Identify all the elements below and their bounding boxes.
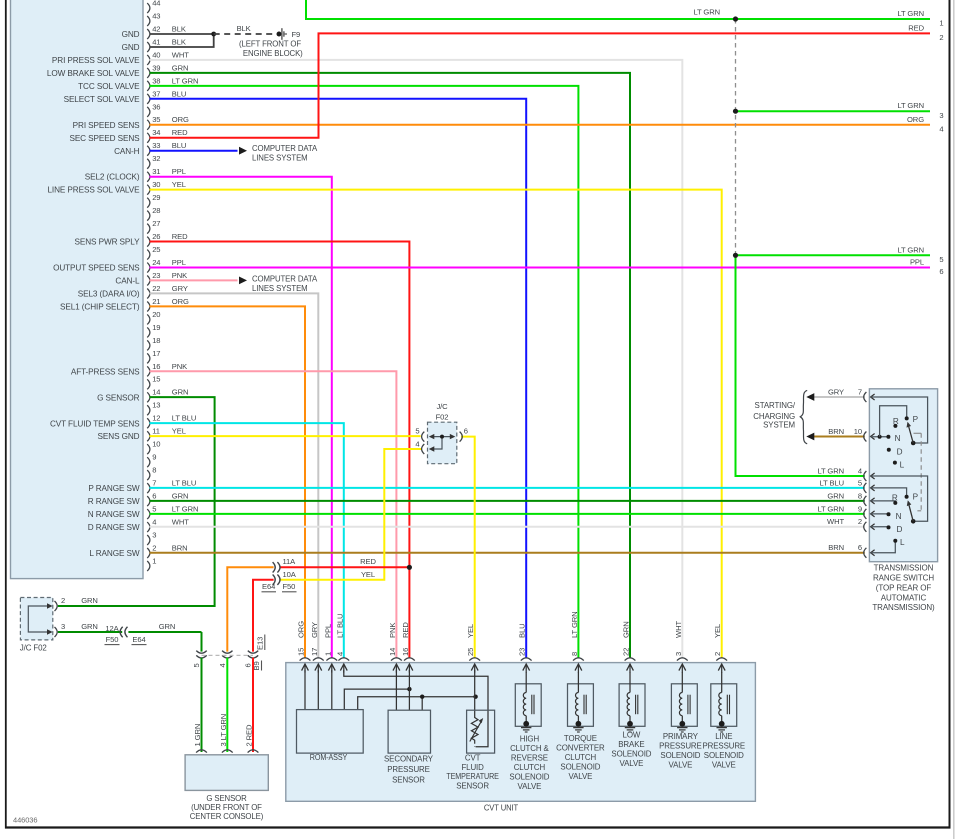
svg-text:BRAKE: BRAKE (618, 740, 644, 749)
svg-text:TRANSMISSION: TRANSMISSION (874, 564, 934, 573)
svg-text:P RANGE SW: P RANGE SW (88, 484, 140, 493)
page terminal 3 LT GRN (897, 101, 943, 120)
TCM pin 2 (BRN) (147, 543, 187, 558)
svg-text:3: 3 (674, 652, 683, 656)
svg-text:GRY: GRY (172, 284, 188, 293)
svg-text:22: 22 (152, 284, 160, 293)
svg-text:ORG: ORG (907, 115, 924, 124)
svg-text:1: 1 (939, 19, 943, 28)
svg-text:F50: F50 (106, 635, 119, 644)
svg-text:N RANGE SW: N RANGE SW (88, 510, 140, 519)
svg-text:LT GRN: LT GRN (897, 9, 924, 18)
TCM pin 14 (GRN) (147, 388, 188, 403)
upper switch contacts R P N D L (886, 416, 908, 464)
svg-text:YEL: YEL (172, 427, 186, 436)
svg-text:GRN: GRN (159, 622, 176, 631)
label GND (122, 43, 140, 52)
svg-text:5: 5 (858, 478, 862, 487)
transmission range switch box (869, 389, 937, 562)
label SELECT SOL VALVE (64, 95, 141, 104)
svg-text:4: 4 (939, 124, 943, 133)
svg-text:2: 2 (939, 33, 943, 42)
CVT unit pin 8 (LT GRN) (570, 611, 584, 672)
svg-text:WHT: WHT (827, 517, 844, 526)
label F9 (292, 30, 301, 39)
svg-text:VALVE: VALVE (669, 760, 693, 769)
splice 10A connector (273, 575, 280, 585)
svg-text:HIGH: HIGH (520, 734, 540, 743)
TCM pin 6 (GRN) (147, 492, 188, 507)
TCM pin 12 (LT BLU) (147, 414, 196, 429)
CVT internal wire pin 25 to temp sensor (474, 670, 476, 718)
label SEL1 (CHIP SELECT) (60, 302, 140, 311)
svg-text:RED: RED (172, 232, 188, 241)
brace for starting/charging system (800, 390, 807, 443)
CVT UNIT box (286, 663, 756, 802)
svg-text:3: 3 (939, 111, 943, 120)
mechanical link dashed line (914, 433, 922, 511)
svg-text:10: 10 (854, 427, 862, 436)
svg-text:3: 3 (61, 622, 65, 631)
CVT unit pin 17 (GRY) (310, 622, 324, 673)
svg-text:10A: 10A (283, 570, 297, 579)
TCM pin 3 (147, 530, 156, 545)
wire GRN pin 39 to CVT pin 22 (150, 73, 631, 658)
svg-text:44: 44 (152, 0, 160, 7)
range switch internal wire terminal 5 to P contact (871, 488, 907, 497)
svg-text:VALVE: VALVE (569, 772, 593, 781)
label P RANGE SW (88, 484, 140, 493)
junction connector J/C F02 left box (20, 598, 52, 640)
wire LT GRN page terminal 3 (736, 110, 931, 112)
node LT GRN terminal 1 (733, 16, 738, 21)
wire BLK pin 41 to ground splice (150, 34, 214, 47)
label G SENSOR (97, 393, 140, 402)
svg-text:16: 16 (401, 648, 410, 656)
page terminal 1 LT GRN (693, 8, 943, 28)
svg-text:PRIMARY: PRIMARY (663, 732, 699, 741)
label AFT-PRESS SENS (71, 367, 140, 376)
wire RED splice 11A to sens power node (280, 566, 410, 568)
splice 12A connector (120, 627, 127, 637)
CVT unit pin 1 (PPL) (323, 624, 337, 673)
node RED sens power supply at 11A (407, 565, 412, 570)
label G SENSOR (UNDER FRONT OF CENTER CONSOLE) (190, 794, 264, 821)
svg-text:40: 40 (152, 50, 160, 59)
drawing number 446036 (13, 815, 37, 824)
svg-text:TCC SOL VALVE: TCC SOL VALVE (78, 82, 140, 91)
svg-text:BLK: BLK (172, 24, 186, 33)
wire LT GRN pin 38 to CVT pin 8 (150, 86, 579, 658)
CVT internal wire pin 4 to temp sensor (344, 670, 488, 747)
svg-text:5: 5 (152, 504, 156, 513)
wire PNK pin 16 to CVT pin 14 (150, 371, 397, 658)
svg-text:43: 43 (152, 11, 160, 20)
dashed BLK wire to ground F9 (214, 33, 277, 35)
svg-text:CAN-L: CAN-L (115, 277, 140, 286)
svg-text:J/C: J/C (436, 402, 448, 411)
svg-text:6: 6 (244, 663, 253, 667)
svg-text:YEL: YEL (172, 180, 186, 189)
svg-text:2: 2 (713, 652, 722, 656)
svg-text:PNK: PNK (172, 362, 187, 371)
J/C F02 middle pin 6 bracket (460, 426, 468, 441)
svg-text:SENSOR: SENSOR (456, 782, 489, 791)
label GND (122, 30, 140, 39)
svg-text:BLK: BLK (237, 24, 251, 33)
svg-text:16: 16 (152, 362, 160, 371)
svg-text:19: 19 (152, 323, 160, 332)
svg-text:3: 3 (152, 530, 156, 539)
svg-text:CLUTCH &: CLUTCH & (510, 744, 549, 753)
range switch internal wire terminal 4 to lower lever (871, 476, 928, 521)
CVT internal wire pin 16 to secondary sensor (408, 670, 410, 710)
wire RED pin 34 to page terminal 2 (150, 33, 931, 137)
solenoid torque converter clutch (556, 672, 605, 781)
J/C F02 left pin 2 bracket (55, 596, 66, 611)
svg-text:SEL3 (DARA I/O): SEL3 (DARA I/O) (78, 290, 140, 299)
label LINE PRESS SOL VALVE (47, 186, 140, 195)
svg-text:42: 42 (152, 24, 160, 33)
svg-text:PRI SPEED SENS: PRI SPEED SENS (73, 121, 140, 130)
label SENS PWR SPLY (75, 238, 141, 247)
wire ORG to splice 11A (227, 567, 273, 651)
svg-text:ORG: ORG (297, 621, 306, 638)
svg-text:(TOP REAR OF: (TOP REAR OF (876, 583, 932, 592)
svg-text:22: 22 (622, 648, 631, 656)
label BLK on dashed wire (237, 24, 251, 33)
CVT unit pin 4 (LT BLU) (335, 614, 349, 673)
svg-text:25: 25 (466, 648, 475, 656)
wire GRN pin 6 to range switch terminal 8 (150, 500, 865, 502)
range switch terminal 6 (BRN) (828, 543, 874, 558)
svg-text:PPL: PPL (172, 167, 186, 176)
TCM pin 43 (147, 11, 160, 26)
svg-text:24: 24 (152, 258, 160, 267)
node LT GRN terminal 3 (733, 109, 738, 114)
svg-text:CENTER CONSOLE): CENTER CONSOLE) (190, 812, 264, 821)
svg-text:SEL2 (CLOCK): SEL2 (CLOCK) (85, 173, 140, 182)
svg-text:TORQUE: TORQUE (564, 734, 597, 743)
svg-text:E64: E64 (132, 635, 145, 644)
TCM pin 35 (ORG) (147, 115, 189, 130)
TCM pin 7 (LT BLU) (147, 479, 196, 494)
label PRI PRESS SOL VALVE (52, 56, 140, 65)
svg-text:D: D (896, 525, 902, 534)
svg-text:6: 6 (152, 492, 156, 501)
svg-text:LINE: LINE (715, 732, 732, 741)
svg-text:35: 35 (152, 115, 160, 124)
svg-text:VALVE: VALVE (518, 782, 542, 791)
svg-text:8: 8 (858, 491, 862, 500)
svg-text:PRESSURE: PRESSURE (387, 765, 430, 774)
svg-text:CONVERTER: CONVERTER (556, 743, 605, 752)
lower switch lever (907, 500, 916, 523)
svg-text:LT GRN: LT GRN (693, 8, 720, 17)
svg-text:LT GRN: LT GRN (897, 101, 924, 110)
range switch internal wire terminal 6 to L contact (871, 541, 896, 553)
wire LT GRN to G sensor pin 3 (226, 658, 228, 752)
solenoid high clutch and reverse clutch (509, 672, 549, 791)
svg-text:LINES SYSTEM: LINES SYSTEM (252, 154, 308, 163)
svg-text:LT BLU: LT BLU (172, 414, 196, 423)
label F50 at 10A (282, 582, 297, 592)
svg-text:PPL: PPL (323, 624, 332, 638)
label CVT FLUID TEMPERATURE SENSOR (446, 753, 499, 790)
svg-text:LT GRN: LT GRN (817, 466, 844, 475)
svg-text:CVT: CVT (465, 753, 481, 762)
svg-text:FLUID: FLUID (461, 763, 484, 772)
label COMPUTER DATA LINES SYSTEM (CAN-L) (252, 274, 318, 293)
svg-text:CHARGING: CHARGING (753, 412, 795, 421)
svg-text:4: 4 (858, 466, 862, 475)
svg-text:21: 21 (152, 297, 160, 306)
svg-text:29: 29 (152, 193, 160, 202)
svg-text:31: 31 (152, 167, 160, 176)
TCM pin 9 (147, 453, 156, 468)
svg-text:15: 15 (152, 375, 160, 384)
svg-text:15: 15 (297, 648, 306, 656)
svg-text:D: D (897, 447, 903, 456)
svg-text:RED: RED (908, 23, 924, 32)
TCM pin 31 (PPL) (147, 167, 186, 182)
svg-text:23: 23 (152, 271, 160, 280)
svg-text:SELECT SOL VALVE: SELECT SOL VALVE (64, 95, 141, 104)
node LT GRN terminal 5 (733, 253, 738, 258)
svg-text:1 GRN: 1 GRN (193, 724, 202, 747)
TCM pin 19 (147, 323, 160, 338)
svg-text:LT BLU: LT BLU (172, 479, 196, 488)
wire RED pin 26 sens power supply to CVT pin 16 (150, 242, 410, 659)
wire YEL pin 11 to J/C F02 pin 5 (150, 435, 421, 437)
svg-text:9: 9 (152, 453, 156, 462)
svg-text:2 RED: 2 RED (245, 724, 254, 746)
svg-text:N: N (896, 512, 902, 521)
svg-text:LT BLU: LT BLU (335, 614, 344, 638)
svg-text:7: 7 (858, 387, 862, 396)
label SEL2 (CLOCK) (85, 173, 140, 182)
svg-text:STARTING/: STARTING/ (755, 401, 796, 410)
range switch internal wire terminal 2 to D contact (871, 526, 889, 528)
TCM pin 20 (147, 310, 160, 325)
label L RANGE SW (89, 549, 139, 558)
svg-text:34: 34 (152, 128, 160, 137)
svg-text:(LEFT FRONT OF: (LEFT FRONT OF (239, 40, 301, 49)
svg-text:4: 4 (335, 652, 344, 656)
svg-text:32: 32 (152, 154, 160, 163)
wire ORG pin 21 to CVT pin 15 (150, 306, 306, 658)
svg-text:5: 5 (192, 663, 201, 667)
svg-text:6: 6 (464, 426, 468, 435)
wire YEL pin 30 to CVT pin 2 (150, 190, 722, 659)
svg-text:CAN-H: CAN-H (114, 147, 140, 156)
svg-text:SEL1 (CHIP SELECT): SEL1 (CHIP SELECT) (60, 302, 140, 311)
svg-text:GRN: GRN (172, 388, 189, 397)
CVT unit pin 25 (YEL) (466, 624, 480, 673)
G sensor harness connector pin 5 (196, 651, 206, 658)
svg-text:PPL: PPL (172, 258, 186, 267)
svg-text:AUTOMATIC: AUTOMATIC (881, 593, 927, 602)
svg-text:GRN: GRN (81, 622, 98, 631)
wire LT BLU pin 12 to CVT pin 4 (150, 423, 344, 658)
svg-text:30: 30 (152, 180, 160, 189)
svg-text:446036: 446036 (13, 815, 37, 824)
svg-text:28: 28 (152, 206, 160, 215)
label B9 (252, 661, 261, 671)
svg-text:4: 4 (218, 663, 227, 667)
svg-text:18: 18 (152, 336, 160, 345)
svg-text:33: 33 (152, 141, 160, 150)
label 11A RED (283, 557, 377, 566)
CVT unit pin 23 (BLU) (518, 624, 532, 673)
svg-text:CLUTCH: CLUTCH (514, 763, 546, 772)
svg-text:3 LT GRN: 3 LT GRN (219, 714, 228, 747)
svg-text:13: 13 (152, 401, 160, 410)
arrow from starting/charging system (BRN) (806, 433, 814, 441)
svg-text:J/C F02: J/C F02 (20, 643, 47, 652)
svg-text:F9: F9 (292, 30, 301, 39)
CVT internal wire pin 17 to ROM (317, 670, 319, 710)
svg-text:OUTPUT SPEED SENS: OUTPUT SPEED SENS (53, 264, 140, 273)
wire YEL J/C F02 pin 6 to CVT pin 25 (461, 437, 475, 659)
range switch terminal 5 (LT BLU) (820, 478, 875, 493)
svg-text:ORG: ORG (172, 115, 189, 124)
J/C F02 middle internal links (429, 434, 456, 452)
wire LT GRN page terminal 5 to range switch terminal 4 (736, 255, 931, 476)
svg-text:(UNDER FRONT OF: (UNDER FRONT OF (191, 803, 262, 812)
svg-text:E64: E64 (262, 582, 275, 591)
svg-text:BRN: BRN (172, 543, 188, 552)
label E13 (256, 635, 265, 651)
svg-text:COMPUTER DATA: COMPUTER DATA (252, 144, 318, 153)
TCM pin 21 (ORG) (147, 297, 189, 312)
svg-text:17: 17 (310, 648, 319, 656)
wire LT BLU pin 7 to range switch terminal 5 (150, 487, 865, 489)
svg-text:7: 7 (152, 479, 156, 488)
label CVT FLUID TEMP SENS (50, 419, 140, 428)
svg-text:2: 2 (152, 543, 156, 552)
label TCC SOL VALVE (78, 82, 140, 91)
label SECONDARY PRESSURE SENSOR (384, 754, 434, 784)
TCM pin 8 (147, 466, 156, 481)
CVT internal wire pin 1 to ROM (331, 670, 333, 710)
TCM pin 37 (BLU) (147, 89, 186, 104)
range switch internal wire terminal 7 to upper lever (871, 397, 928, 443)
TCM pin 38 (LT GRN) (147, 76, 198, 91)
svg-text:4: 4 (415, 440, 419, 449)
TCM pin 29 (147, 193, 160, 208)
secondary pressure sensor box (388, 710, 430, 753)
svg-text:10: 10 (152, 440, 160, 449)
TCM pin 42 (BLK) (147, 24, 186, 39)
svg-text:36: 36 (152, 102, 160, 111)
wire BLK pin 42 to ground splice (150, 33, 214, 35)
wire GRY range switch terminal 7 from starting system (814, 396, 865, 398)
CVT internal wire pin 15 to ROM (304, 670, 306, 710)
svg-text:RED: RED (172, 128, 188, 137)
CVT internal wire pin 25 branch to ROM and secondary sensor (358, 695, 478, 711)
svg-text:LINE PRESS SOL VALVE: LINE PRESS SOL VALVE (47, 186, 140, 195)
CVT unit pin 3 (WHT) (674, 621, 688, 673)
label ROM-ASSY (310, 753, 348, 762)
svg-text:2: 2 (858, 517, 862, 526)
labels 1 GRN 3 LT GRN 2 RED at G sensor (193, 714, 254, 747)
wire GRN J/C F02 pin 3 to G sensor connector (58, 632, 202, 652)
TCM pin 34 (RED) (147, 128, 188, 143)
splice node on BLK ground wire (211, 32, 216, 37)
svg-text:F02: F02 (436, 412, 449, 421)
label 10A YEL (283, 570, 376, 579)
svg-text:GND: GND (122, 30, 140, 39)
svg-text:AFT-PRESS SENS: AFT-PRESS SENS (71, 367, 140, 376)
wire LT GRN pin 5 to range switch terminal 9 (150, 513, 865, 515)
junction connector J/C F02 middle box (428, 422, 457, 464)
G sensor box (185, 755, 268, 791)
TCM pin 32 (147, 154, 160, 169)
svg-text:9: 9 (858, 504, 862, 513)
svg-text:CVT FLUID TEMP SENS: CVT FLUID TEMP SENS (50, 419, 140, 428)
wire PNK pin 23 CAN-L stub (150, 279, 238, 281)
CVT unit pin 2 (YEL) (713, 624, 727, 673)
wire BLU pin 33 CAN-H stub (150, 150, 238, 152)
lower switch letters (892, 492, 919, 547)
TCM pin 41 (BLK) (147, 37, 186, 52)
svg-text:R RANGE SW: R RANGE SW (88, 497, 140, 506)
dashed link between harness connectors (202, 654, 254, 656)
TCM pin 13 (147, 401, 160, 416)
lower switch contacts R P N D L (887, 495, 909, 543)
arrow to computer data lines (CAN-H) (239, 147, 247, 155)
svg-text:R: R (893, 417, 899, 426)
range switch terminal 7 (GRY) (828, 387, 875, 402)
svg-text:SENS PWR SPLY: SENS PWR SPLY (75, 238, 141, 247)
TCM pin 11 (YEL) (147, 427, 186, 442)
TCM pin 24 (PPL) (147, 258, 186, 273)
svg-text:N: N (895, 434, 901, 443)
svg-text:SOLENOID: SOLENOID (704, 751, 744, 760)
svg-text:LT GRN: LT GRN (817, 504, 844, 513)
svg-text:PPL: PPL (910, 258, 924, 267)
G sensor harness connector pin 6 (248, 651, 258, 658)
label GRN 12A F50 E64 GRN (81, 622, 175, 645)
arrow to computer data lines (CAN-L) (239, 277, 247, 285)
CVT unit pin 14 (PNK) (388, 623, 402, 673)
wire PPL pin 24 to page terminal 6 (150, 267, 931, 269)
svg-text:R: R (892, 494, 898, 503)
G sensor pin brackets (196, 750, 258, 753)
svg-text:G SENSOR: G SENSOR (97, 393, 140, 402)
svg-text:38: 38 (152, 76, 160, 85)
wire GRN pin 14 to J/C F02 pin 2 (58, 397, 215, 606)
TCM pin 16 (PNK) (147, 362, 187, 377)
page terminal 6 PPL (910, 258, 944, 277)
svg-text:PNK: PNK (172, 271, 187, 280)
CVT internal wire pin 14 to secondary sensor (395, 670, 397, 710)
label N RANGE SW (88, 510, 140, 519)
range switch internal wire terminal 9 to N contact (871, 513, 889, 515)
label J/C F02 left (20, 643, 47, 652)
svg-text:ORG: ORG (172, 297, 189, 306)
dashed interconnect line between page terminals (735, 19, 737, 255)
svg-text:RED: RED (401, 622, 410, 638)
svg-text:ENGINE BLOCK): ENGINE BLOCK) (243, 49, 303, 58)
svg-text:PRESSURE: PRESSURE (659, 741, 702, 750)
svg-text:PRESSURE: PRESSURE (702, 741, 745, 750)
svg-text:SYSTEM: SYSTEM (763, 421, 795, 430)
svg-text:12: 12 (152, 414, 160, 423)
TCM pin 5 (LT GRN) (147, 504, 198, 519)
label SEL3 (DARA I/O) (78, 290, 140, 299)
